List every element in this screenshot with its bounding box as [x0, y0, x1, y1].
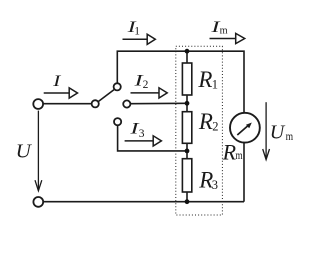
svg-text:1: 1 — [134, 26, 140, 38]
svg-text:m: m — [220, 24, 228, 36]
svg-text:2: 2 — [143, 79, 149, 91]
svg-text:2: 2 — [212, 119, 218, 133]
svg-text:R: R — [198, 109, 213, 134]
svg-text:3: 3 — [139, 128, 145, 140]
svg-text:m: m — [286, 129, 294, 143]
svg-text:R: R — [222, 140, 237, 165]
svg-text:1: 1 — [212, 78, 218, 92]
svg-text:I: I — [52, 73, 61, 90]
svg-text:m: m — [235, 148, 243, 162]
svg-text:3: 3 — [212, 178, 218, 192]
svg-text:R: R — [197, 67, 212, 92]
svg-text:U: U — [16, 141, 33, 163]
svg-text:U: U — [270, 122, 286, 144]
